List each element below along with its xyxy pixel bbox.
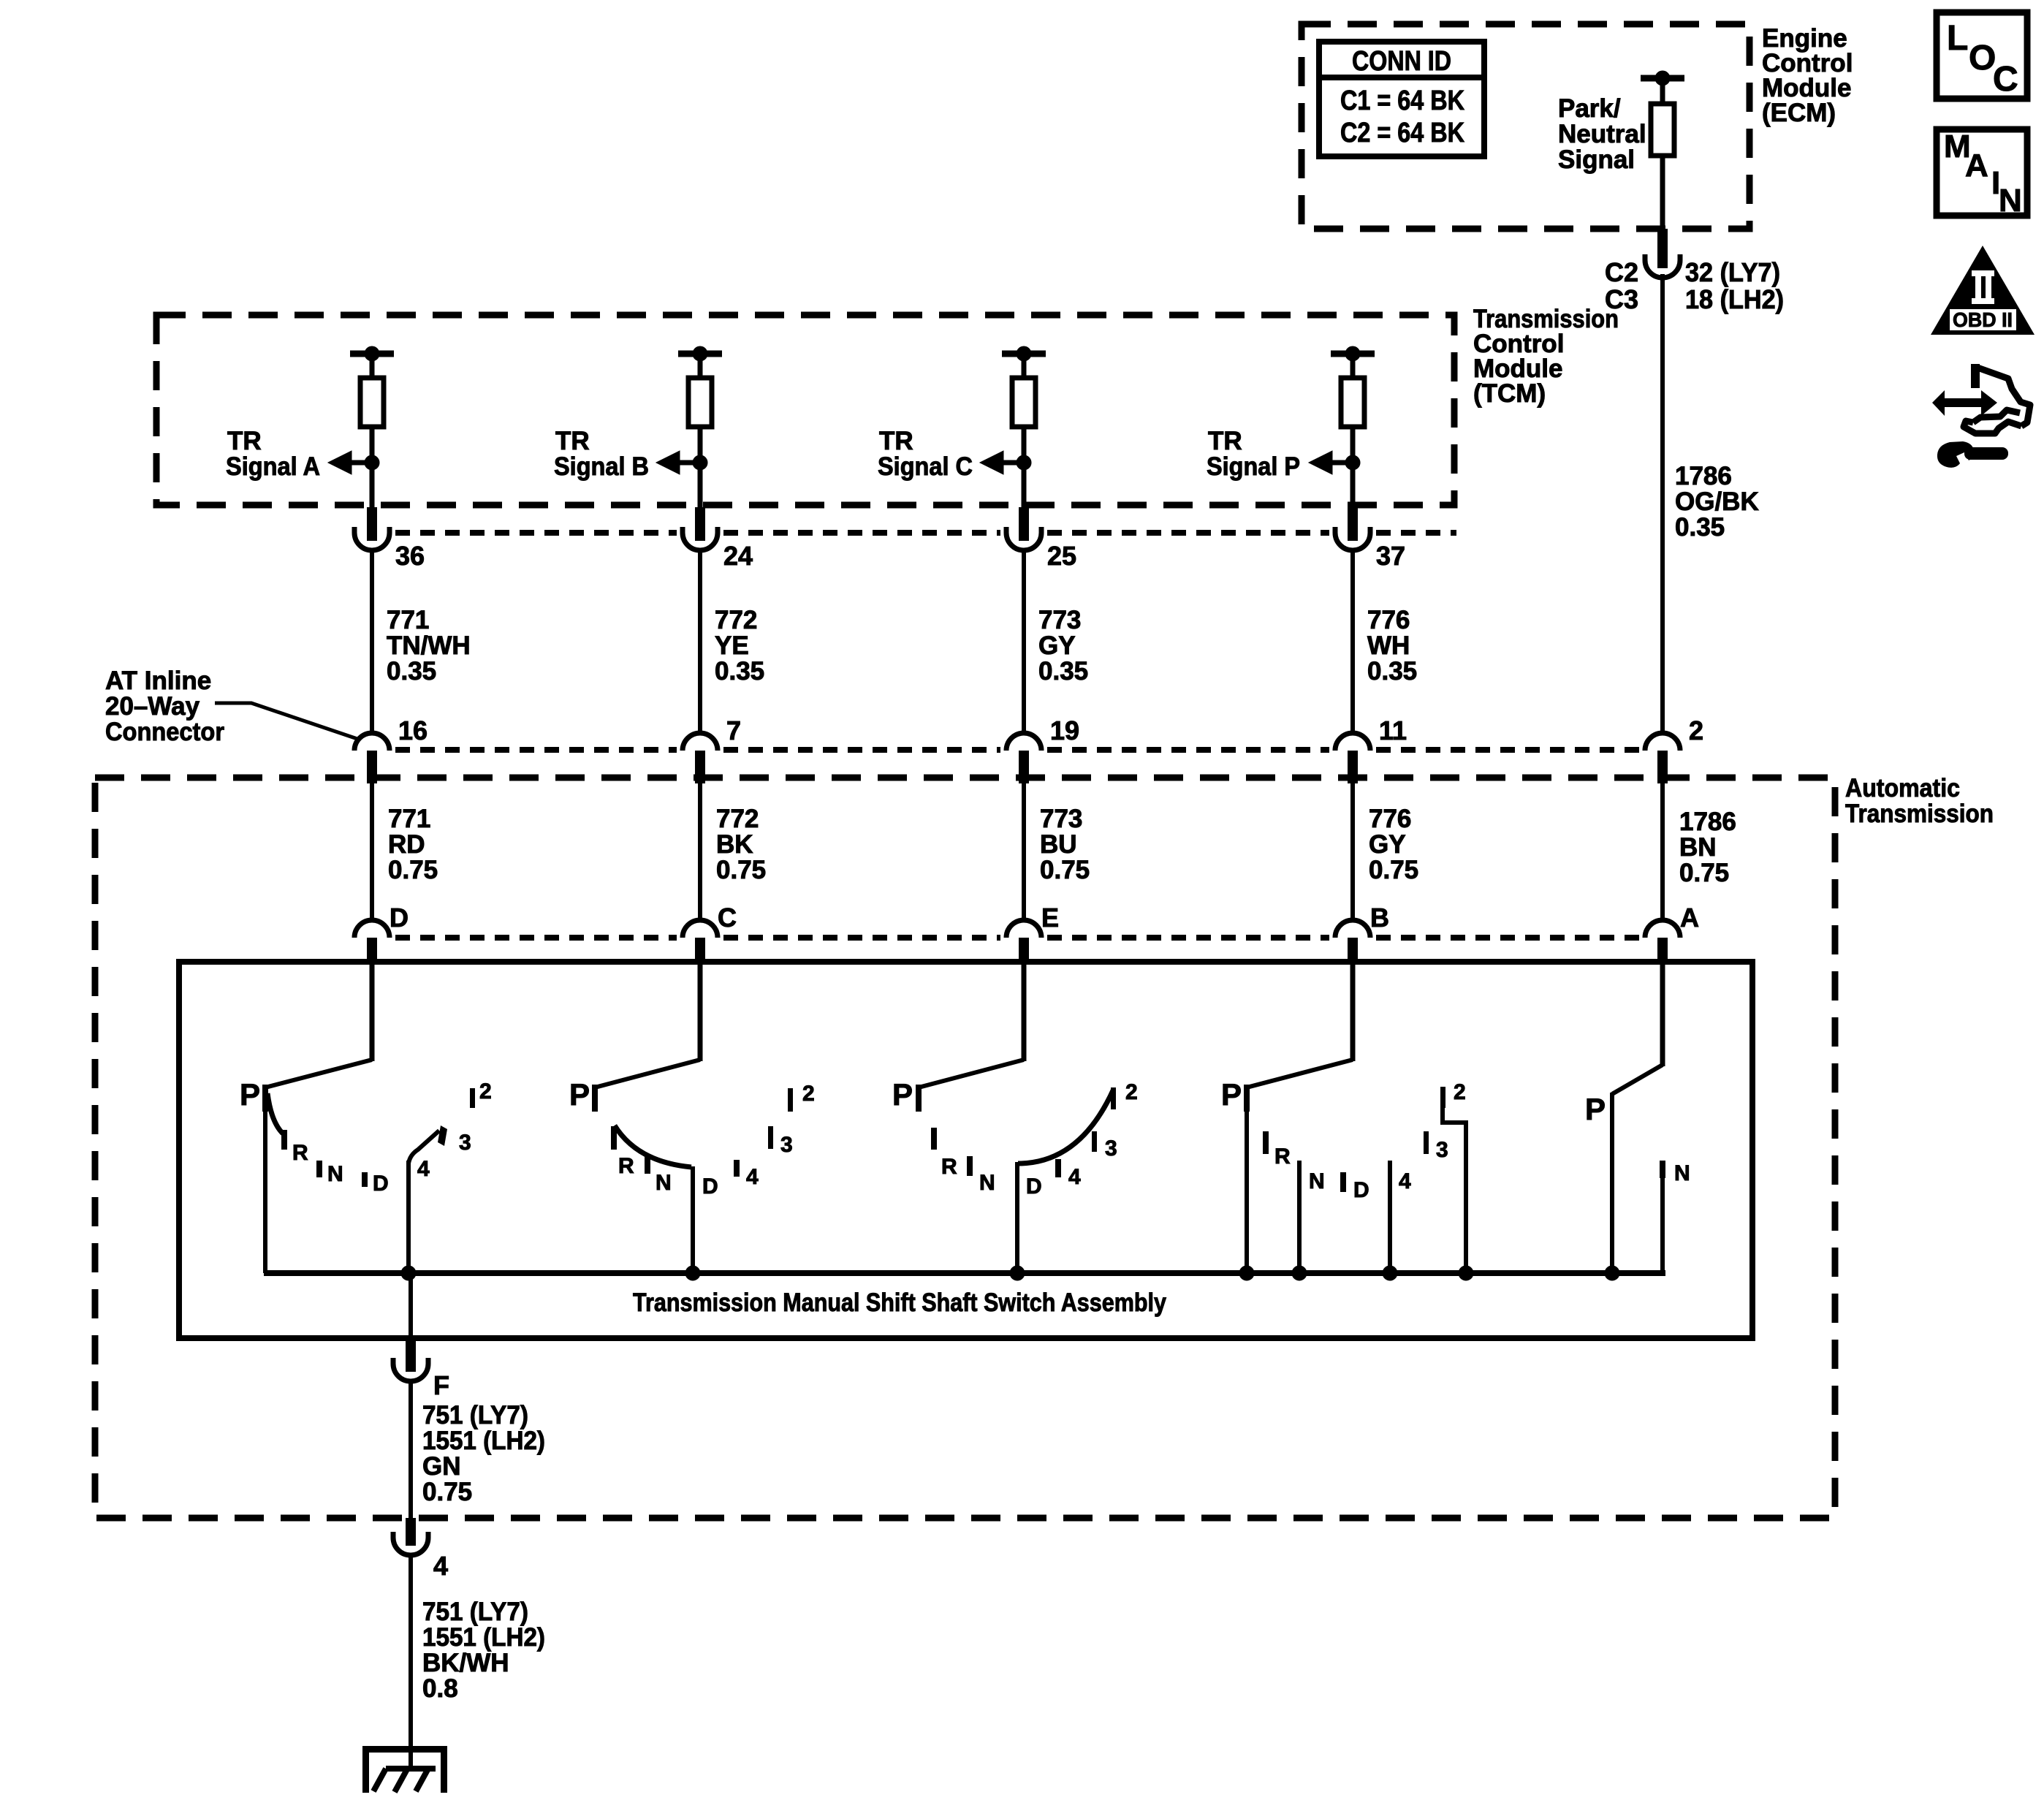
svg-text:O: O [1969,39,1996,77]
svg-text:32 (LY7): 32 (LY7) [1685,257,1780,287]
svg-text:F: F [433,1370,449,1400]
wire 771 TN/WH [370,550,374,733]
svg-text:3: 3 [780,1133,793,1157]
switch 5 contact N line to bus [1660,1161,1690,1273]
svg-text:N: N [979,1171,995,1195]
switch 4 contact 4 line to bus [1383,1161,1411,1280]
svg-text:24: 24 [723,541,753,571]
svg-text:WH: WH [1367,631,1410,660]
svg-text:2: 2 [1454,1080,1466,1104]
svg-text:E: E [1041,903,1059,933]
svg-text:2: 2 [1689,715,1703,745]
svg-text:3: 3 [1436,1138,1448,1162]
svg-text:N: N [1674,1161,1690,1185]
switch 1 contact P [240,1077,268,1273]
svg-text:R: R [1274,1144,1291,1169]
resistor: TCM TR Signal C pull-up [1002,346,1046,507]
svg-text:772: 772 [715,606,757,634]
label + arrow: TR Signal P [1207,427,1360,481]
svg-text:3: 3 [459,1131,471,1155]
svg-text:OG/BK: OG/BK [1675,487,1759,516]
svg-text:0.35: 0.35 [1367,657,1417,686]
switch 2 contact 4 [734,1160,759,1189]
wire label 751 (LY7) 1551 (LH2) BK/WH 0.8 [422,1598,545,1703]
switch 2: wire from pin C [595,965,700,1087]
svg-text:751 (LY7): 751 (LY7) [422,1598,528,1626]
OBD II icon [1931,246,2034,335]
svg-text:BK/WH: BK/WH [422,1649,509,1677]
svg-text:BN: BN [1679,833,1717,862]
resistor: TCM TR Signal A pull-up [350,346,394,507]
wire label 771 TN/WH 0.35 [387,606,471,686]
switch 1 wiper arc from P [267,1093,283,1134]
svg-text:37: 37 [1376,541,1405,571]
wire label 771 RD 0.75 [388,805,438,884]
svg-text:0.75: 0.75 [1040,856,1090,884]
wire 772 BK [698,783,702,920]
svg-text:4: 4 [433,1551,448,1581]
svg-text:P: P [240,1077,260,1112]
wire 751/1551 BK/WH [409,1555,413,1769]
svg-text:0.75: 0.75 [1679,859,1729,887]
switch 2 contact P [569,1077,598,1112]
label: Transmission Control Module (TCM) [1473,305,1619,408]
CONN ID table [1319,42,1484,156]
switch 5 contact P line to bus [1585,1092,1619,1280]
svg-text:Neutral: Neutral [1558,120,1646,148]
svg-text:3: 3 [1105,1136,1117,1161]
switch 2 bus junction [685,1266,700,1280]
wire label 776 GY 0.75 [1369,805,1418,884]
resistor: ECM Park/Neutral Signal pull-up [1641,71,1684,229]
connector pin 11 [1335,715,1407,783]
switch 3 wiper arc D to 2 [1018,1089,1114,1163]
wire label 773 GY 0.35 [1038,606,1088,686]
svg-text:N: N [327,1162,343,1186]
wire from switch common to case connector F [406,1273,416,1372]
wire label 772 YE 0.35 [715,606,764,686]
switch 4 contact R [1263,1131,1291,1169]
wire label 1786 BN 0.75 [1679,808,1736,887]
wire 751/1551 GN [409,1381,413,1522]
svg-text:GY: GY [1038,631,1076,660]
label + arrow: TR Signal A [226,427,379,481]
Transmission Manual Shift Shaft Switch Assembly box [179,962,1752,1338]
resistor: TCM TR Signal B pull-up [678,346,722,507]
svg-text:751 (LY7): 751 (LY7) [422,1401,528,1430]
switch 4 contact D [1340,1172,1369,1202]
svg-text:R: R [292,1141,308,1165]
connector pin 36 [354,507,425,571]
svg-text:C1 = 64 BK: C1 = 64 BK [1340,86,1464,116]
svg-text:0.75: 0.75 [716,856,766,884]
svg-text:4: 4 [1068,1165,1081,1189]
label: Transmission Manual Shift Shaft Switch Assembly [633,1288,1166,1317]
svg-text:N: N [1999,183,2022,219]
switch common bus wire [264,1270,1665,1276]
wire label 1786 OG/BK 0.35 [1675,462,1759,542]
svg-text:19: 19 [1050,715,1079,745]
svg-text:P: P [569,1077,590,1112]
svg-text:Transmission: Transmission [1845,800,1994,828]
svg-text:36: 36 [395,541,425,571]
svg-text:Signal: Signal [1558,145,1635,174]
wire 772 YE [698,550,702,733]
svg-text:0.75: 0.75 [1369,856,1418,884]
svg-text:C2 = 64 BK: C2 = 64 BK [1340,118,1464,148]
switch 2 contact 3 [768,1126,793,1157]
svg-text:YE: YE [715,631,749,660]
svg-text:BK: BK [716,830,753,859]
svg-text:GY: GY [1369,830,1406,859]
svg-text:P: P [1221,1077,1242,1112]
wire 773 GY [1022,550,1026,733]
svg-text:771: 771 [388,805,430,833]
svg-text:P: P [1585,1092,1606,1126]
switch 1 contact D [362,1172,389,1196]
svg-text:Signal B: Signal B [554,452,649,481]
svg-text:4: 4 [746,1165,759,1189]
wire 771 RD [370,783,374,920]
connector C2/C3 at ECM [1645,229,1680,278]
switch 1 contact R [281,1130,308,1165]
svg-text:0.35: 0.35 [387,657,436,686]
MAIN icon [1937,129,2027,219]
wire 1786 OG/BK [1660,274,1665,733]
svg-text:TR: TR [227,427,262,455]
switch 3: wire from pin E [919,965,1024,1087]
svg-text:2: 2 [802,1082,815,1106]
svg-text:D: D [1353,1178,1369,1202]
switch 1 contact N [316,1161,343,1186]
svg-text:0.35: 0.35 [1675,513,1725,542]
svg-text:7: 7 [726,715,741,745]
connector pin 7 [683,715,741,783]
switch 3 bus junction [1010,1266,1025,1280]
switch 2 contact R [611,1126,634,1178]
svg-text:AT Inline: AT Inline [105,667,211,695]
svg-text:RD: RD [388,830,425,859]
svg-text:2: 2 [479,1079,492,1104]
label: Automatic Transmission [1845,774,1994,828]
AT inline connector row (dotted) [395,747,1639,753]
svg-text:1551 (LH2): 1551 (LH2) [422,1427,545,1455]
label + arrow: TR Signal B [554,427,707,481]
svg-text:A: A [1965,148,1988,183]
wire 776 GY [1350,783,1355,920]
svg-text:0.8: 0.8 [422,1674,458,1703]
svg-text:773: 773 [1040,805,1082,833]
svg-text:4: 4 [1399,1169,1411,1193]
connector pin D [354,903,409,965]
svg-text:TR: TR [1208,427,1242,455]
svg-text:(TCM): (TCM) [1473,379,1546,408]
svg-text:0.75: 0.75 [422,1478,472,1506]
switch 4 contact 3 [1424,1131,1448,1162]
svg-text:16: 16 [398,715,428,745]
svg-text:2: 2 [1125,1080,1138,1104]
svg-text:BU: BU [1040,830,1077,859]
svg-text:N: N [656,1171,672,1195]
connector pin A [1645,903,1699,965]
transmission case connector row (dotted) [395,935,1639,941]
svg-text:4: 4 [417,1157,430,1181]
Automatic Transmission dashed box [95,778,1835,1518]
connector pin 2 [1645,715,1703,783]
svg-text:D: D [702,1174,718,1199]
svg-text:773: 773 [1038,606,1081,634]
svg-text:P: P [892,1077,913,1112]
switch 3 contact 4 [1055,1159,1081,1189]
switch 3 contact N [967,1156,995,1195]
svg-text:D: D [373,1172,389,1196]
TCM connector row (dotted) [395,530,1456,536]
svg-text:Automatic: Automatic [1845,774,1960,802]
svg-text:TR: TR [555,427,590,455]
svg-text:C: C [718,903,737,933]
label: Engine Control Module (ECM) [1762,24,1853,127]
switch 1 contact 3 [459,1131,471,1155]
svg-text:CONN ID: CONN ID [1352,46,1451,77]
svg-text:N: N [1309,1169,1325,1193]
connector pin B [1335,903,1389,965]
svg-text:Transmission Manual Shift Shaf: Transmission Manual Shift Shaft Switch A… [633,1288,1166,1317]
label: Park/Neutral Signal [1558,94,1646,174]
svg-text:Signal C: Signal C [878,452,973,481]
svg-text:772: 772 [716,805,759,833]
switch 3 contact 2 [1111,1080,1138,1109]
svg-text:Signal A: Signal A [226,452,320,481]
svg-text:C2: C2 [1605,257,1638,287]
connector pin 25 [1006,507,1076,571]
switch 2 wiper arc R to D [615,1125,691,1167]
wire 773 BU [1022,783,1026,920]
LOC icon [1937,12,2027,99]
svg-text:GN: GN [422,1452,461,1481]
connector pin 19 [1006,715,1079,783]
switch 4 contact N line to bus [1292,1161,1325,1280]
connector pin 24 [683,507,753,571]
svg-text:Signal P: Signal P [1207,452,1300,481]
switch 1 contact 4 line to bus [409,1157,430,1273]
switch 1 contact 2 [470,1079,492,1108]
connector pin E [1006,903,1059,965]
wire 776 WH [1350,550,1355,733]
connector pin 4 (inline) [393,1518,448,1581]
svg-text:0.75: 0.75 [388,856,438,884]
svg-text:D: D [390,903,409,933]
svg-text:Connector: Connector [105,718,224,746]
switch 3 contact D line to bus [1017,1162,1042,1273]
switch 2 contact D line to bus [693,1166,718,1273]
svg-text:L: L [1947,19,1968,58]
switch 3 contact 3 [1092,1131,1117,1161]
svg-text:C: C [1993,60,2018,99]
switch 4 contact P line to bus [1221,1077,1254,1280]
svg-text:A: A [1680,903,1699,933]
svg-text:0.35: 0.35 [715,657,764,686]
resistor: TCM TR Signal P pull-up [1331,346,1375,507]
svg-text:(ECM): (ECM) [1762,99,1836,127]
switch 3 contact P [892,1077,922,1112]
switch 1: wire from pin D [265,965,372,1087]
connector pin 16 [354,715,428,783]
svg-text:R: R [618,1154,634,1178]
wire label 751 (LY7) 1551 (LH2) GN 0.75 [422,1401,545,1506]
svg-text:TN/WH: TN/WH [387,631,471,660]
switch 2 contact 2 [788,1082,815,1112]
svg-text:TR: TR [879,427,913,455]
svg-text:B: B [1370,903,1389,933]
switch 2 contact N [645,1155,672,1195]
svg-text:D: D [1026,1174,1042,1199]
svg-text:1786: 1786 [1675,462,1732,490]
svg-text:R: R [941,1155,957,1179]
connector pin C [683,903,737,965]
switch 3 contact R [931,1128,957,1179]
label: AT Inline 20-Way Connector with leader [105,667,360,746]
switch 5: wire from pin A [1612,965,1663,1094]
switch 1 wiper arc 4 to 3 [409,1125,447,1163]
switch 1 bus junction [401,1266,416,1280]
ECM dashed module box [1302,24,1749,229]
ground symbol [362,1746,447,1793]
svg-text:25: 25 [1047,541,1076,571]
switch 4 contact 2 line to bus [1440,1080,1473,1280]
switch 4: wire from pin B [1247,965,1353,1087]
svg-text:18 (LH2): 18 (LH2) [1685,284,1784,314]
svg-text:776: 776 [1369,805,1411,833]
svg-text:20–Way: 20–Way [105,692,200,721]
label + arrow: TR Signal C [878,427,1031,481]
wire 1786 BN [1660,783,1665,920]
connector pin 37 [1335,507,1405,571]
service/programming icon [1932,364,2030,468]
TCM dashed module box [156,315,1454,505]
connector pin F [393,1358,449,1400]
svg-text:1551 (LH2): 1551 (LH2) [422,1623,545,1652]
svg-text:OBD II: OBD II [1953,308,2013,331]
svg-text:Park/: Park/ [1558,94,1621,123]
wire label 776 WH 0.35 [1367,606,1417,686]
wire label 772 BK 0.75 [716,805,766,884]
svg-text:11: 11 [1379,715,1407,745]
svg-text:0.35: 0.35 [1038,657,1088,686]
svg-text:1786: 1786 [1679,808,1736,836]
pin labels C2 C3 32 18 [1605,257,1784,314]
svg-text:771: 771 [387,606,429,634]
svg-text:776: 776 [1367,606,1410,634]
wire label 773 BU 0.75 [1040,805,1090,884]
